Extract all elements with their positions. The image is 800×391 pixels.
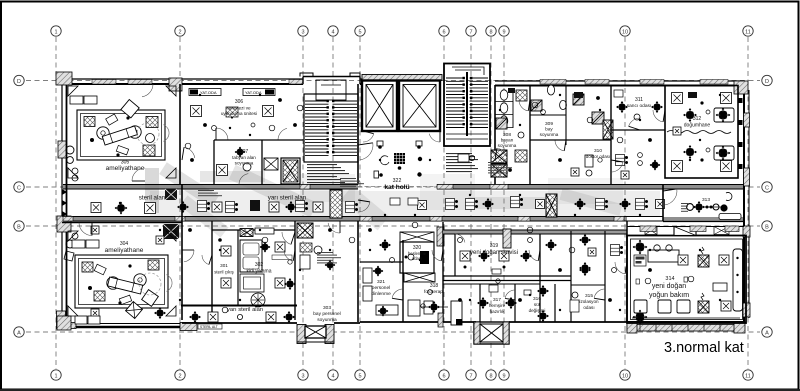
svg-text:10: 10: [622, 373, 628, 379]
room 302 interior: [240, 232, 296, 307]
legend text block under stair S1: [307, 164, 349, 183]
room 313 bottom gray band: [663, 217, 744, 222]
corridor top wall lines: [63, 184, 358, 186]
room 312 delivery bed 1: [706, 108, 734, 122]
svg-text:odası: odası: [583, 305, 594, 310]
legend text block under stair S2: [446, 153, 478, 172]
stair S1 tower protrusion: [300, 73, 360, 100]
room 321 walls: [360, 261, 403, 263]
svg-text:301: 301: [220, 263, 228, 268]
wall y140 segment 530-611: [530, 139, 611, 141]
grid row axis D: [14, 75, 772, 85]
balcony at bottom right: [627, 325, 744, 332]
wall y130 segment 611-665: [611, 129, 665, 131]
svg-text:soyunma: soyunma: [498, 143, 517, 148]
scatter dots: [94, 94, 721, 311]
elevator shaft E1: [362, 81, 397, 132]
room 320 crossed band top: [400, 232, 434, 242]
svg-text:5: 5: [358, 29, 361, 35]
outer wall: left side: [61, 79, 63, 330]
wall tag boxes right section: [508, 88, 697, 98]
svg-text:314: 314: [665, 276, 674, 282]
room 305 corner triangles: [68, 86, 176, 178]
svg-text:3: 3: [301, 29, 304, 35]
wall x238 (301/302 divider): [237, 230, 239, 306]
svg-text:C: C: [17, 185, 21, 191]
grid column axis 10: [620, 26, 630, 380]
scatter symbols top area: [185, 96, 651, 171]
svg-text:8: 8: [489, 373, 492, 379]
room 320 crossed band bottom: [404, 273, 435, 282]
room 304 top wall: [62, 222, 182, 224]
svg-text:303: 303: [323, 305, 331, 311]
grid column axis 9: [499, 26, 509, 380]
svg-text:319: 319: [490, 243, 499, 249]
room 313 door: [663, 189, 677, 191]
svg-text:steril çıkış: steril çıkış: [214, 270, 234, 275]
outer wall: right side: [743, 85, 745, 322]
room 304 inner outline: [75, 255, 168, 308]
svg-text:süt: süt: [534, 302, 541, 307]
small shaft x box near stair: [264, 158, 278, 170]
room 319 top wall gray band: [443, 230, 627, 234]
room 304 corner triangles: [68, 231, 176, 316]
svg-text:kirli yıkama: kirli yıkama: [246, 269, 271, 275]
room 312 fan symbols: [684, 101, 704, 161]
room 315 interior: [570, 265, 591, 313]
room 316 interior: [524, 286, 549, 322]
room 313 bench: [719, 214, 741, 220]
room 315 walls: [570, 231, 572, 322]
room 313 walls: [663, 185, 744, 222]
svg-text:steril alan: steril alan: [139, 195, 166, 202]
room 312 delivery bed 2: [706, 146, 734, 160]
svg-text:soyunma: soyunma: [235, 161, 254, 166]
svg-text:soyunma: soyunma: [540, 132, 559, 137]
room 321 interior: [363, 240, 398, 317]
room 304 wall fixtures: [64, 233, 99, 261]
room 303 interior: [300, 221, 340, 270]
stair box bottom-centre: [474, 322, 509, 344]
svg-text:2: 2: [178, 373, 181, 379]
stair S2 tower outline: [444, 64, 490, 147]
svg-text:313: 313: [702, 197, 710, 203]
room 305 ameliyathane outline inner: [77, 110, 165, 160]
room 318 interior: [408, 290, 462, 327]
wall x358 between stair and elevators: [357, 84, 359, 185]
svg-text:7: 7: [469, 373, 472, 379]
room 320 interior: [405, 251, 430, 264]
svg-text:uyandırma ünitesi: uyandırma ünitesi: [221, 111, 257, 116]
room 311 interior: [614, 90, 663, 130]
room 303 shaft: [297, 223, 313, 238]
room 319 walls: [454, 234, 456, 276]
room 314 walls: [627, 236, 746, 324]
elevator shaft block hatched strip: [362, 75, 442, 81]
svg-text:hazırlık: hazırlık: [490, 309, 506, 314]
svg-text:doğumhane: doğumhane: [684, 123, 711, 129]
svg-text:8: 8: [489, 29, 492, 35]
room 313 equipment row: [687, 202, 728, 213]
room 302 top wall: [212, 229, 295, 231]
mini schedule text blocks: [198, 162, 512, 263]
room 313 micro text: [681, 203, 688, 212]
room 312 doğumhane walls: [665, 86, 738, 179]
wall x495: [494, 85, 496, 185]
svg-text:6: 6: [442, 373, 445, 379]
svg-text:değişimi: değişimi: [529, 308, 546, 313]
wall x627: [626, 221, 628, 322]
room 304 bottom furniture: [75, 302, 142, 324]
svg-text:dinlenme: dinlenme: [371, 291, 391, 297]
wall x530: [529, 85, 531, 185]
svg-text:bay: bay: [545, 127, 553, 132]
pilaster hatch left wall upper: [58, 141, 66, 158]
pilaster hatch at x=170 top: [169, 78, 182, 91]
svg-text:hemşire: hemşire: [489, 303, 506, 308]
svg-text:bayan: bayan: [501, 138, 514, 143]
wall x358 bottom: [357, 221, 359, 322]
wall x212: [211, 221, 213, 320]
room 317 walls: [479, 284, 481, 322]
extra corridor furniture: [62, 189, 523, 217]
svg-text:312: 312: [693, 116, 702, 122]
svg-text:4: 4: [331, 29, 334, 35]
gray watermark blocks: [145, 162, 660, 237]
grid column axis 3: [298, 26, 308, 380]
room 309 interior: [496, 85, 604, 151]
stair S1 outline: [304, 94, 358, 162]
room 304 equipment cluster: [82, 260, 172, 306]
desk below stair S2: [458, 154, 475, 162]
svg-text:A: A: [17, 330, 21, 336]
hatched shaft in corridor niche: [503, 229, 511, 248]
room under elevators fixtures: [358, 141, 422, 178]
svg-text:302: 302: [255, 262, 264, 268]
bottom corridor symbols left: [190, 312, 295, 323]
hatch block bottom x=180: [180, 323, 197, 331]
area between 319 and 314 fixtures: [546, 235, 628, 301]
svg-text:D: D: [765, 79, 769, 85]
corridor bottom wall gray band: [63, 217, 627, 222]
outer wall: bottom mid section: [182, 322, 297, 324]
svg-text:5: 5: [358, 373, 361, 379]
svg-text:izolasyon: izolasyon: [579, 299, 599, 304]
grid row axis B: [14, 221, 772, 231]
svg-text:9: 9: [502, 29, 505, 35]
kat holu open ceiling dashed line: [358, 186, 437, 188]
grid column axis 11: [743, 26, 753, 380]
room 312 right wall pier dots: [738, 98, 743, 169]
stair S2 treads: [446, 67, 488, 139]
room 305 wall fixtures: [66, 96, 97, 181]
svg-text:doktor odası: doktor odası: [586, 154, 610, 159]
room 314 window strip top: [627, 226, 744, 228]
window sills top wall: [92, 80, 728, 85]
outer wall: top of right block: [495, 80, 744, 82]
stair S1 treads: [305, 100, 357, 156]
svg-text:tabyan alan: tabyan alan: [232, 155, 256, 160]
pilaster hatch left wall mid: [57, 216, 71, 232]
pier hatch right of 320: [437, 227, 444, 246]
shaft beside room 307: [281, 158, 300, 184]
pilaster hatches right wall: [744, 113, 750, 127]
svg-text:STERIL ALT: STERIL ALT: [200, 325, 218, 329]
svg-text:311: 311: [635, 97, 643, 103]
grid column axis 8: [486, 26, 496, 380]
equipment tag box 1: [189, 89, 221, 96]
svg-text:yeni doğan servisi: yeni doğan servisi: [470, 250, 518, 256]
shafts below room 308: [491, 150, 507, 177]
svg-text:306: 306: [235, 99, 244, 105]
room 307 interior: [217, 147, 252, 185]
svg-text:4: 4: [331, 373, 334, 379]
svg-text:10: 10: [622, 29, 628, 35]
svg-text:personel: personel: [372, 285, 390, 291]
room 319 interior: [458, 238, 533, 275]
corridor symbols: [145, 189, 665, 239]
room 314 window piers: [640, 226, 739, 232]
room 305 equipment cluster: [84, 100, 169, 157]
elevator shaft E2: [399, 81, 440, 132]
corridor hatch piers: [63, 185, 624, 222]
svg-text:D: D: [17, 79, 21, 85]
svg-text:A: A: [765, 330, 769, 336]
equipment tag box 2: [243, 89, 275, 96]
room 314 incubator row bottom: [632, 300, 740, 318]
svg-text:yarı steril alan: yarı steril alan: [227, 307, 263, 313]
room 304 ceiling boxes: [91, 226, 166, 319]
room 314 top contents: [633, 240, 743, 324]
svg-text:3: 3: [301, 373, 304, 379]
svg-text:B: B: [17, 224, 21, 230]
grid column axis 4: [328, 26, 338, 380]
shaft right of room 310: [603, 120, 613, 139]
wall x182 vertical: [181, 185, 183, 321]
pilaster hatch top-left corner: [56, 72, 72, 85]
grid column axis 6: [439, 26, 449, 380]
wall y305 segment: [181, 305, 297, 307]
grid column axis 7: [466, 26, 476, 380]
corridor top wall gray band: [63, 185, 358, 190]
room 312 ceiling xboxes: [672, 93, 732, 172]
room 308 fixtures (wc row): [495, 88, 527, 162]
svg-text:ameliyathane: ameliyathane: [105, 247, 144, 254]
scatter symbols bottom area: [188, 222, 651, 313]
wall x611: [610, 85, 612, 185]
room 313 hook: [726, 193, 732, 201]
svg-text:7: 7: [469, 29, 472, 35]
pilaster hatch top-right corner: [734, 81, 748, 94]
svg-text:11: 11: [745, 29, 751, 35]
svg-text:YAT.ODA: YAT.ODA: [200, 90, 217, 95]
wall room306/307 divider: [214, 139, 303, 141]
room 305 door: [132, 180, 145, 182]
tag box crtamalit: [198, 324, 222, 329]
outer wall: bottom of left block: [57, 326, 196, 328]
grid row axis C: [14, 182, 772, 192]
pilaster hatch left wall lower: [57, 316, 71, 330]
outer wall: top of left block: [57, 78, 303, 80]
grid column axis 5: [355, 26, 365, 380]
svg-text:fototerapi: fototerapi: [424, 289, 444, 295]
svg-text:3.normal kat: 3.normal kat: [664, 340, 744, 356]
dumbwaiter box bottom-left: [297, 325, 334, 344]
room below 311 fixtures: [616, 153, 661, 179]
svg-text:2: 2: [178, 29, 181, 35]
wall x295: [294, 221, 296, 320]
svg-text:C: C: [765, 185, 769, 191]
door swing arcs: [79, 84, 665, 300]
svg-text:6: 6: [442, 29, 445, 35]
svg-text:yeni doğan: yeni doğan: [652, 283, 686, 290]
room 320 box: [400, 242, 434, 273]
svg-text:soyunma: soyunma: [317, 318, 337, 323]
svg-text:yoğun bakım: yoğun bakım: [649, 292, 689, 299]
svg-text:11: 11: [745, 373, 751, 379]
wall room305 right: [179, 84, 181, 185]
svg-text:bay personel: bay personel: [313, 311, 340, 317]
svg-text:318: 318: [430, 283, 439, 289]
room 317 interior: [478, 279, 517, 309]
outer wall: bottom of right block: [627, 321, 744, 323]
hatch corner bottom-left: [57, 311, 66, 329]
corridor bottom wall lines: [63, 216, 663, 218]
room 310 interior: [571, 155, 602, 176]
svg-text:ameliyathane: ameliyathane: [106, 165, 145, 172]
grid column axis 1: [51, 26, 61, 380]
svg-text:sancı odası: sancı odası: [627, 103, 652, 109]
grid row axis A: [14, 327, 772, 337]
room 301 interior: [202, 238, 231, 288]
svg-text:anestezi ve: anestezi ve: [227, 106, 251, 111]
room 318 walls: [442, 222, 444, 322]
room 316 walls: [554, 284, 556, 322]
grid column axis 2: [175, 26, 185, 380]
svg-text:9: 9: [502, 373, 505, 379]
svg-text:321: 321: [377, 279, 385, 285]
room 306 interior: [191, 106, 291, 141]
svg-text:kat holü: kat holü: [384, 184, 409, 191]
svg-text:B: B: [765, 224, 769, 230]
svg-text:1: 1: [54, 29, 57, 35]
svg-text:1: 1: [54, 373, 57, 379]
